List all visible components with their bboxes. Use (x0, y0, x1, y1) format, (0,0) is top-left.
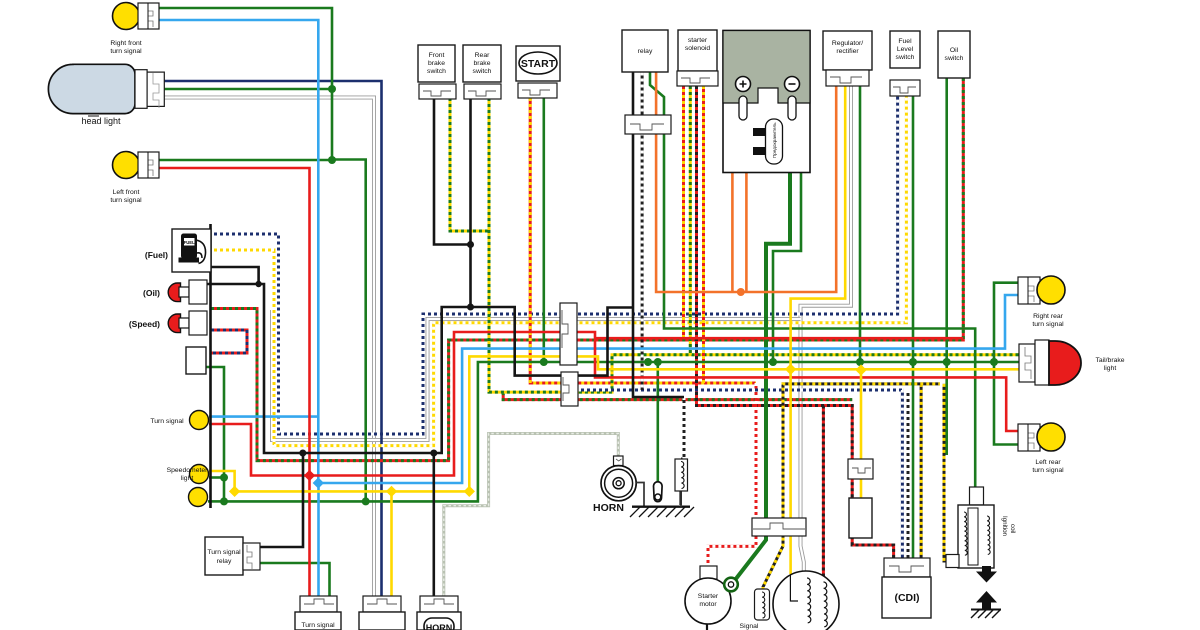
svg-text:Предохранитель: Предохранитель (772, 122, 777, 158)
svg-text:Rear: Rear (475, 52, 490, 59)
svg-text:turn signal: turn signal (1032, 467, 1064, 474)
svg-text:Right rear: Right rear (1033, 313, 1064, 320)
svg-text:Regulator/: Regulator/ (832, 40, 863, 47)
svg-text:Starter: Starter (698, 593, 719, 600)
svg-text:brake: brake (428, 60, 445, 67)
svg-text:FUEL: FUEL (184, 240, 195, 245)
svg-text:Right front: Right front (110, 40, 141, 47)
svg-text:switch: switch (473, 68, 492, 75)
svg-text:Ignition: Ignition (1001, 516, 1008, 537)
svg-text:motor: motor (699, 601, 717, 608)
svg-text:Front: Front (429, 52, 445, 59)
svg-text:Tail/brake: Tail/brake (1095, 357, 1124, 364)
svg-text:turn signal: turn signal (110, 197, 142, 204)
svg-text:Speedometer: Speedometer (167, 467, 209, 474)
svg-text:Left front: Left front (113, 189, 140, 196)
svg-text:Fuel: Fuel (898, 38, 912, 45)
svg-text:switch: switch (945, 55, 964, 62)
svg-text:Oil: Oil (950, 47, 959, 54)
svg-text:starter: starter (688, 37, 708, 44)
svg-text:HORN: HORN (593, 502, 624, 514)
svg-text:(Oil): (Oil) (143, 288, 160, 298)
svg-text:relay: relay (217, 558, 232, 565)
svg-text:(Speed): (Speed) (129, 319, 160, 329)
svg-text:coil: coil (1009, 524, 1016, 533)
svg-text:Turn signal: Turn signal (150, 418, 184, 425)
svg-text:turn signal: turn signal (110, 48, 142, 55)
svg-text:Turn signal: Turn signal (301, 622, 335, 629)
svg-text:START: START (521, 58, 556, 70)
svg-text:brake: brake (473, 60, 490, 67)
svg-text:(Fuel): (Fuel) (145, 250, 168, 260)
svg-text:turn signal: turn signal (1032, 321, 1064, 328)
svg-text:Level: Level (897, 46, 914, 53)
svg-text:light: light (181, 475, 194, 482)
svg-text:solenoid: solenoid (685, 45, 711, 52)
svg-text:head light: head light (81, 116, 121, 126)
svg-text:(CDI): (CDI) (894, 592, 919, 604)
svg-text:Turn signal: Turn signal (207, 549, 241, 556)
svg-text:HORN: HORN (426, 623, 453, 630)
svg-text:rectifier: rectifier (836, 48, 859, 55)
svg-text:relay: relay (638, 48, 653, 55)
svg-text:Left rear: Left rear (1035, 459, 1061, 466)
svg-text:light: light (1104, 365, 1117, 372)
svg-text:switch: switch (896, 54, 915, 61)
svg-text:Signal: Signal (740, 623, 759, 630)
svg-text:switch: switch (427, 68, 446, 75)
